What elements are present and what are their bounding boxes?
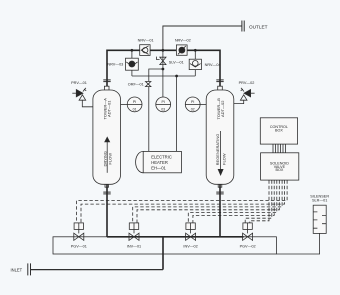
svg-text:PI: PI [191,100,194,104]
gauge PI-01 [121,97,142,112]
svg-text:03: 03 [161,107,165,111]
svg-text:INLET: INLET [11,267,23,272]
control box [260,118,297,144]
svg-text:EH—01: EH—01 [151,165,166,170]
svg-text:FLOW: FLOW [107,153,112,165]
svg-text:PRV—01: PRV—01 [71,81,87,85]
wire top main pipe [107,50,220,89]
valve SLV-01 solenoid [157,57,184,65]
valve NRV-02 [175,38,191,55]
valve NRV-03 [107,58,138,70]
svg-text:HEATER: HEATER [151,160,168,165]
valve INV-02 [183,223,197,249]
valve PGV-01 [71,223,87,249]
solenoid valve box [261,153,299,180]
svg-text:NRV—02: NRV—02 [175,38,191,42]
svg-text:ADT—01: ADT—01 [106,100,111,117]
svg-text:ORF—01: ORF—01 [128,83,144,87]
wire NRV-03 stubs [131,50,133,58]
valve NRV-04 [189,59,220,69]
wire tower B bottom riser [219,184,221,237]
wire tower A bottom riser [106,184,108,237]
svg-text:OUTLET: OUTLET [249,24,268,29]
svg-text:02: 02 [191,107,195,111]
svg-text:BOX: BOX [275,129,283,133]
orifice ORF-01 [128,82,151,87]
wire dashed pilot lines [77,180,288,223]
manifold header box [53,237,276,254]
wire SLV drop line to PI-03 [162,50,164,97]
node junction dots [131,49,197,78]
svg-text:REGENERATING: REGENERATING [215,134,220,166]
svg-text:NRV—03: NRV—03 [107,63,123,67]
svg-text:SLV—01: SLV—01 [169,60,184,64]
gauge PI-02 [185,97,206,112]
svg-text:PGV—02: PGV—02 [240,244,256,248]
inlet flange [28,263,31,275]
silencer SLR-01 [276,195,329,254]
tower A flanges [103,80,110,194]
wire ORF branch [149,69,163,152]
wire heater right pipe [176,76,178,152]
outlet flange [242,21,244,32]
svg-text:SLR—01: SLR—01 [312,199,327,203]
wire inlet line [31,269,163,271]
wire outlet line [163,26,242,50]
wire mid header y76 [132,75,195,77]
svg-text:INV—01: INV—01 [127,244,141,248]
valve NRV-01 [138,38,154,55]
tower B flanges [216,80,223,194]
relief valve PRV-01 [71,81,93,107]
svg-text:NRV—01: NRV—01 [138,38,154,42]
svg-text:INV—02: INV—02 [183,244,197,248]
svg-text:PI: PI [161,100,164,104]
svg-text:PI: PI [133,100,136,104]
electric heater EH-01 [136,151,182,172]
svg-text:ELECTRIC: ELECTRIC [151,155,172,160]
svg-text:FLOW: FLOW [221,153,226,165]
relief valve PRV-02 [234,81,255,103]
valve INV-01 [127,223,141,249]
wire NRV-04 stubs [194,50,196,59]
svg-text:PGV—01: PGV—01 [71,244,87,248]
svg-text:01: 01 [133,107,137,111]
tower B ADT-02 vessel [206,86,234,187]
wire inlet riser [162,237,164,270]
valve PGV-02 [240,223,256,249]
svg-text:ADT—02: ADT—02 [220,100,225,117]
svg-text:BOX: BOX [276,168,284,172]
gauge PI-03 [156,97,171,112]
svg-text:PRV—02: PRV—02 [239,81,255,85]
svg-text:NRV—04: NRV—04 [205,63,221,67]
tower A ADT-01 vessel [93,86,121,187]
wire ribbon control-solenoid [273,144,286,153]
wire bottom process line [107,236,244,238]
